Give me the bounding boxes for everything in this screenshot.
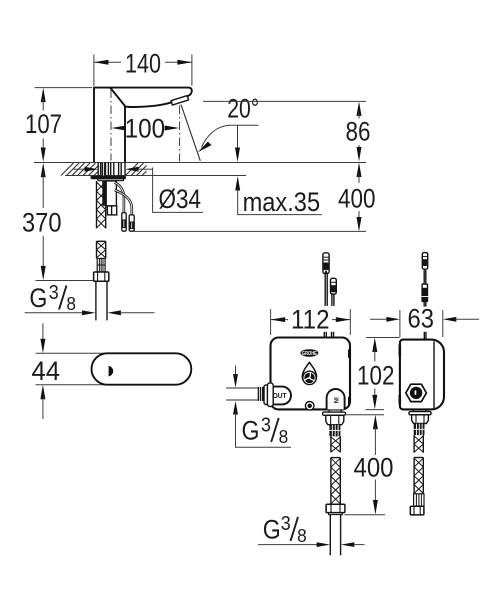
flexible hose lower segment <box>97 241 106 258</box>
diameter 34 leader box <box>153 168 203 213</box>
svg-text:20°: 20° <box>227 94 259 124</box>
hose union nut <box>94 272 109 281</box>
control box front cable plug 1 <box>323 253 329 274</box>
svg-text:8: 8 <box>279 427 289 447</box>
dimension 63 extension lines <box>399 310 401 337</box>
control box side cable plug <box>422 253 427 270</box>
countertop top line <box>34 162 366 164</box>
control box front cable stubs into box <box>324 332 333 338</box>
svg-text:107: 107 <box>25 109 62 139</box>
dimension 107 top extension <box>35 87 93 89</box>
sensor cable 1 <box>115 183 124 214</box>
dimension 370 bottom extension <box>36 280 94 282</box>
threaded rod below counter <box>102 181 106 206</box>
dimension 112 <box>271 317 351 322</box>
svg-text:G: G <box>29 283 47 313</box>
side box compression threads <box>414 424 425 435</box>
dimension 44 upper arrow <box>40 323 45 353</box>
dimension 400 right bottom extension <box>134 230 367 232</box>
dimension 102 bottom extension <box>365 409 384 411</box>
label G 3/8 middle <box>242 415 289 447</box>
faucet top view sensor window <box>109 366 114 377</box>
IN port arch <box>327 389 345 409</box>
G3/8 bottom leader with arrows <box>258 542 365 547</box>
label G 3/8 bottom <box>263 513 307 546</box>
svg-text:370: 370 <box>22 207 62 237</box>
turbine ring <box>303 371 316 384</box>
faucet body top slab <box>94 88 192 97</box>
connection tube G3/8 <box>96 281 107 320</box>
control box front view outline <box>271 338 351 410</box>
side box inlet connector hex <box>406 384 427 401</box>
dimension 86 <box>357 101 362 161</box>
dimension 107 <box>41 88 46 162</box>
faucet mounting centerline <box>110 90 112 161</box>
water stream 20 degree line <box>181 105 200 161</box>
svg-text:8: 8 <box>66 294 76 314</box>
dimension 140 line <box>94 60 192 65</box>
faucet shoulder diagonal <box>110 88 125 106</box>
control box side view outline <box>400 340 444 410</box>
control box front cable 2 wire <box>332 294 334 306</box>
20 degree leader arrowhead <box>198 142 212 153</box>
side hose end nut <box>410 506 424 515</box>
side box fitting neck <box>414 409 426 411</box>
water drop icon <box>302 362 316 384</box>
faucet top view outline <box>92 353 192 384</box>
control box side cable wire lower <box>424 302 426 339</box>
countertop hatching left <box>61 163 98 176</box>
20 degree leader line <box>202 125 259 147</box>
screw at box bottom <box>305 402 314 411</box>
max35 upper arrow <box>235 125 240 162</box>
mounting washer lower plate <box>98 179 124 181</box>
dimension 44 extension lines <box>36 352 105 354</box>
G3/8 OUT arrows <box>233 366 291 448</box>
IN fitting compression threads <box>329 425 340 437</box>
dimension 102 top extension <box>366 337 399 339</box>
front hose end nut <box>326 504 345 514</box>
G3/8 left leader with arrows <box>25 310 155 315</box>
control box side rear plug <box>421 283 428 302</box>
svg-text:8: 8 <box>297 526 307 546</box>
countertop bottom line <box>65 175 246 177</box>
faucet spout underside <box>125 102 172 107</box>
dimension 400 bottom lower extension <box>344 514 385 516</box>
svg-text:102: 102 <box>357 361 395 391</box>
svg-text:3: 3 <box>281 513 291 535</box>
faucet body left edge <box>93 88 95 162</box>
side box parting line <box>433 341 435 408</box>
svg-text:G: G <box>263 515 281 545</box>
label G 3/8 left <box>29 282 76 314</box>
svg-text:86: 86 <box>346 117 371 147</box>
dimension 140 extension line right <box>191 55 193 86</box>
svg-text:400: 400 <box>354 452 394 482</box>
dimension 112 extension lines <box>270 309 272 335</box>
svg-text:G: G <box>242 416 260 446</box>
side hose segment 1 <box>414 435 423 453</box>
front hose segment 1 <box>331 436 340 452</box>
IN fitting flange <box>323 409 346 415</box>
svg-text:OUT: OUT <box>273 391 287 400</box>
turbine blades <box>304 373 314 383</box>
dimension 86 extension line <box>203 100 366 102</box>
dimension 100 <box>111 126 179 131</box>
control box front cable plug 2 <box>331 278 337 294</box>
OUT port tab <box>271 387 291 405</box>
side box mounting clips <box>399 345 402 356</box>
side box fitting nut <box>412 415 429 424</box>
control box front cable 1 wire <box>325 274 327 306</box>
IN fitting nut <box>326 415 344 424</box>
dimension 102 <box>372 338 377 410</box>
cable guide tube <box>106 181 117 215</box>
side hose end nipple <box>414 494 424 507</box>
GROHE logo <box>300 349 318 357</box>
faucet body right edge <box>124 106 126 162</box>
OUT pipe nut <box>267 383 273 407</box>
dimension 63 <box>370 317 479 322</box>
countertop hatching right <box>126 163 147 176</box>
svg-text:100: 100 <box>125 113 166 143</box>
svg-text:44: 44 <box>32 356 61 386</box>
mounting washer under counter <box>91 176 127 179</box>
OUT pipe <box>226 388 258 400</box>
svg-text:Ø34: Ø34 <box>159 184 202 214</box>
OUT pipe flange <box>264 385 268 405</box>
dimension 400 bottom top extension <box>344 414 384 416</box>
svg-text:400: 400 <box>338 183 376 213</box>
svg-text:112: 112 <box>291 305 330 335</box>
water stream centerline <box>179 106 181 162</box>
OUT pipe thread block <box>258 387 264 401</box>
side hose segment 2 <box>414 458 423 494</box>
control box side cable wire upper <box>424 269 426 283</box>
sensor cable 2 <box>115 190 132 216</box>
dimension 400 bottom <box>373 415 378 515</box>
outlet tube below front hose <box>330 515 340 556</box>
flexible hose upper segment <box>97 181 106 229</box>
svg-text:140: 140 <box>125 48 161 78</box>
svg-text:3: 3 <box>261 415 271 437</box>
svg-text:3: 3 <box>49 282 59 304</box>
side box fitting flange <box>409 412 431 415</box>
sensor plug 1 <box>122 213 126 232</box>
dimension 44 lower arrow <box>40 385 45 419</box>
dimension 140 extension line left <box>93 55 95 86</box>
svg-text:IN: IN <box>332 397 338 403</box>
sensor plug 2 <box>129 215 134 231</box>
diameter 34 arrows in section <box>74 167 153 172</box>
faucet shank in hole <box>98 163 125 176</box>
hose coupling nipple <box>97 258 105 272</box>
faucet aerator <box>171 96 189 106</box>
control box front right edge clips <box>348 350 350 358</box>
side box inlet connector circle <box>410 387 422 399</box>
svg-text:GROHE: GROHE <box>302 351 317 357</box>
svg-text:max.35: max.35 <box>243 187 321 217</box>
front hose segment 2 <box>331 458 340 505</box>
dimension 400 right <box>357 163 362 232</box>
dimension 370 <box>41 163 46 281</box>
max35 lower arrow and leader <box>235 176 322 215</box>
svg-text:63: 63 <box>408 304 435 334</box>
